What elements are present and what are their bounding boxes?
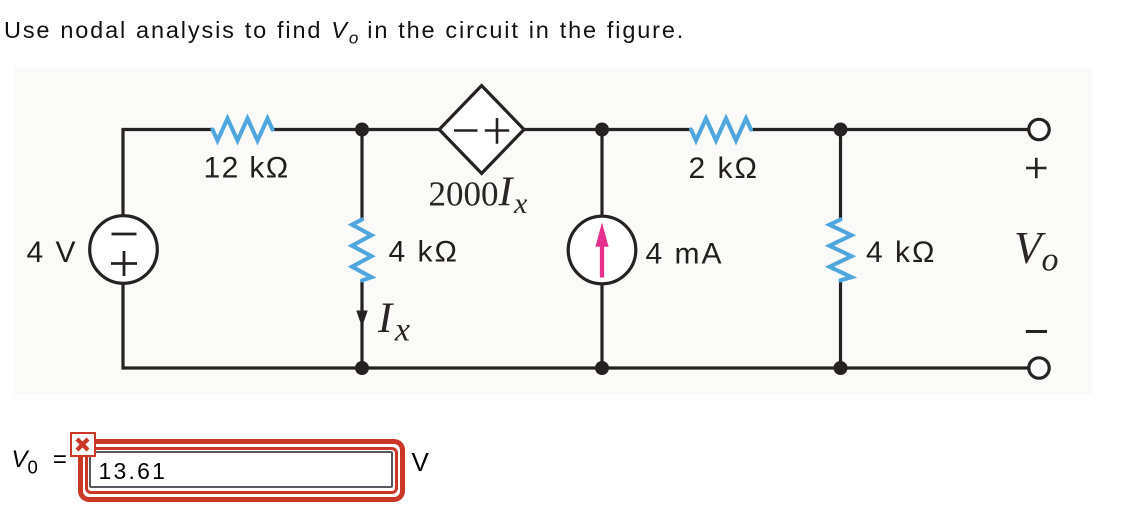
wire: current source branch upper [600, 130, 603, 216]
wire: right branch upper [839, 130, 842, 220]
dependent source plus sign [485, 118, 509, 144]
dependent source minus sign [454, 129, 478, 132]
node E bottom current-source junction [595, 361, 609, 375]
terminal bottom right [1029, 358, 1049, 378]
svg-text:2 kΩ: 2 kΩ [689, 152, 759, 185]
terminal top right [1029, 119, 1049, 139]
Ix arrow head on middle branch [356, 311, 367, 328]
svg-text:4 kΩ: 4 kΩ [389, 236, 459, 269]
wire: lower-left vertical + bottom wire [123, 283, 1028, 368]
current source arrow head [595, 223, 608, 247]
svg-text:12 kΩ: 12 kΩ [204, 152, 290, 185]
node D bottom-middle junction [355, 361, 369, 375]
svg-text:4 V: 4 V [27, 236, 78, 269]
svg-text:4 kΩ: 4 kΩ [866, 236, 936, 269]
figure background [14, 68, 1092, 395]
dependent source U1 diamond 2000Ix [439, 86, 524, 174]
resistor R2 2 kOhm [691, 119, 751, 141]
voltage source V1 plus sign [111, 251, 137, 276]
minus sign of Vo [1026, 330, 1047, 333]
resistor R3 4 kOhm (middle vertical) [352, 220, 372, 281]
wire: middle branch upper [360, 130, 363, 220]
voltage source V1 4V [90, 216, 158, 284]
voltage source V1 minus sign [112, 233, 137, 236]
node A top-middle junction [355, 123, 369, 137]
wire: middle branch lower [360, 280, 363, 368]
wire: current source branch lower [600, 283, 603, 368]
node C top right-resistor junction [834, 123, 848, 137]
wire: top between 12k and diamond [273, 128, 440, 131]
plus sign of Vo [1026, 158, 1047, 179]
wire: top-left corner + upper left vertical [123, 130, 213, 216]
answer box outer red ring [78, 439, 405, 502]
wire: top between 2k and right terminal [751, 128, 1028, 131]
node B top current-source junction [595, 123, 609, 137]
resistor R1 12 kOhm [213, 119, 273, 141]
answer row: V0 = [12, 446, 67, 479]
current source arrow shaft [600, 244, 604, 278]
svg-text:4 mA: 4 mA [646, 238, 724, 271]
incorrect X badge [70, 432, 96, 457]
answer input field [89, 451, 393, 489]
wire: top between diamond and 2k [524, 128, 691, 131]
unit V [412, 447, 429, 478]
answer box inner red ring [85, 447, 398, 494]
node F bottom right-resistor junction [834, 361, 848, 375]
current source I1 4 mA [568, 216, 636, 284]
wire: right branch lower [839, 280, 842, 368]
title [4, 17, 685, 48]
resistor R4 4 kOhm (right vertical) [830, 220, 852, 281]
